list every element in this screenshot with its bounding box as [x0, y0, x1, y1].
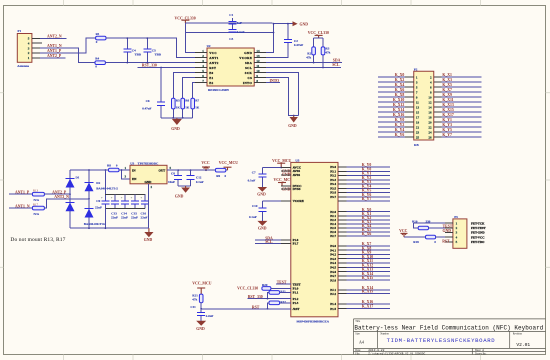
svg-text:10: 10 [428, 95, 432, 99]
svg-text:R8: R8 [107, 164, 111, 168]
wire ANT2 net: R4 to U2.ANT2 [105, 62, 195, 64]
wire U3.GND to ground rail [148, 184, 150, 228]
diode D2 (dual BAS40-04) [88, 170, 90, 228]
wire net K_X13 (P2 right) [441, 106, 481, 108]
wire net K_X11 (U5) [347, 262, 391, 264]
junction C12 [190, 169, 192, 171]
svg-text:FET-GND: FET-GND [471, 231, 485, 235]
svg-text:C8: C8 [171, 171, 175, 175]
wire net SCL (U2) [266, 67, 341, 69]
resistor R18 [426, 235, 436, 239]
wire net SDA (U2) [266, 62, 342, 64]
wire net K_X1 (P2 right) [441, 76, 481, 78]
svg-text:VCC_CL330: VCC_CL330 [175, 16, 196, 20]
wire net K_Y2 (U5) [347, 179, 391, 181]
wire net K_Y7 (U5) [347, 200, 391, 202]
svg-text:20: 20 [428, 120, 432, 124]
P3 pin numbers [456, 221, 458, 244]
wire net K_X11 (P2 right) [441, 101, 481, 103]
svg-text:SDA: SDA [245, 61, 253, 65]
svg-text:ANT2_N: ANT2_N [54, 195, 69, 199]
wire net K_X17 (P2 right) [441, 116, 481, 118]
svg-text:FET-TCK: FET-TCK [471, 221, 485, 225]
svg-text:13: 13 [416, 105, 420, 109]
resistor R2 [313, 38, 315, 62]
svg-text:18: 18 [428, 115, 432, 119]
svg-text:C1: C1 [229, 13, 233, 17]
resistor R21 [199, 294, 203, 303]
U2 right pin stubs [254, 53, 266, 83]
U2 left pin names [209, 51, 219, 85]
junction R12/RST [267, 308, 269, 310]
svg-text:11: 11 [416, 100, 419, 104]
svg-text:K_X16: K_X16 [362, 300, 373, 304]
svg-text:R20: R20 [262, 283, 268, 287]
wire net SDA (U5) [255, 239, 281, 241]
svg-text:FET-VCC: FET-VCC [471, 235, 484, 239]
wire net K_X15 (P2 right) [441, 111, 481, 113]
voltage regulator U3 TPS78330 [130, 165, 167, 184]
svg-text:P2.7: P2.7 [330, 234, 336, 238]
svg-text:22uF: 22uF [141, 216, 148, 220]
svg-text:K_X14: K_X14 [393, 108, 404, 112]
wire net K_X8 (U5) [347, 249, 391, 251]
svg-text:TBD: TBD [135, 52, 142, 56]
U2 right pin names [239, 51, 252, 85]
svg-text:VCC_MCU: VCC_MCU [192, 282, 211, 286]
svg-text:ANT1_P: ANT1_P [15, 191, 30, 195]
svg-text:PJ.0: PJ.0 [330, 278, 336, 282]
svg-text:N/A: N/A [34, 212, 40, 216]
node GND (AVSS pins) [282, 169, 291, 177]
svg-text:0.1uF: 0.1uF [248, 179, 256, 183]
svg-text:C7: C7 [252, 171, 256, 175]
wire net K_X15 (U5) [347, 293, 391, 295]
svg-text:GND: GND [175, 195, 184, 199]
svg-text:PJ.2: PJ.2 [330, 292, 336, 296]
svg-text:ANT1_N: ANT1_N [15, 204, 30, 208]
wire net K_X0 (U5) [347, 211, 391, 213]
svg-text:C6: C6 [146, 99, 150, 103]
svg-text:P1.1: P1.1 [293, 291, 299, 295]
P2 pin stubs [405, 77, 441, 137]
U5 left pin stubs [281, 168, 291, 309]
svg-text:K_X2: K_X2 [395, 78, 405, 82]
capacitor C8 [177, 170, 179, 186]
svg-text:K_Y6: K_Y6 [395, 133, 405, 137]
wire net RST_330 to U2.RST [137, 67, 195, 69]
wire R18 to P3.4 [436, 236, 445, 238]
svg-text:ANT1_N: ANT1_N [47, 44, 62, 48]
svg-text:R9: R9 [216, 174, 220, 178]
svg-text:12: 12 [428, 100, 432, 104]
svg-text:VCC_CL330: VCC_CL330 [237, 286, 258, 290]
svg-text:C11: C11 [190, 305, 196, 309]
svg-text:VCC_MCU: VCC_MCU [272, 159, 291, 163]
svg-text:K_X17: K_X17 [442, 113, 453, 117]
capacitor C12 [190, 170, 192, 186]
connector P2 (KB) [414, 71, 434, 140]
wire net K_X3 (P2 right) [441, 81, 481, 83]
junction VCC [205, 169, 207, 171]
svg-text:2.2nF: 2.2nF [206, 314, 214, 318]
svg-text:22uF: 22uF [95, 206, 102, 210]
svg-text:CS: CS [248, 76, 253, 80]
wire net ANT2_P (pin 1 stub) [40, 57, 66, 59]
wire U2.E1 to R6 [183, 77, 195, 98]
wire cap bank to ground rail [104, 209, 106, 229]
wire VCC rail: U3.OUT [167, 169, 215, 171]
svg-text:K_X9: K_X9 [442, 93, 452, 97]
svg-text:R5: R5 [176, 98, 180, 102]
svg-text:10uF: 10uF [168, 180, 175, 184]
svg-text:ANT2_N: ANT2_N [47, 34, 62, 38]
svg-text:R17: R17 [33, 202, 39, 206]
cap bank top tie rail [105, 193, 145, 195]
IC U5 MSP430FR5969 body [291, 162, 338, 316]
wire net K_X14 (U5) [347, 275, 391, 277]
svg-text:SCL: SCL [265, 240, 273, 244]
ground arrow (top right) [293, 21, 298, 26]
svg-text:R13: R13 [33, 188, 39, 192]
svg-text:P1.7: P1.7 [293, 242, 299, 246]
svg-text:17: 17 [416, 115, 420, 119]
junction D2 mid [88, 198, 90, 200]
polarity marks cap bank [101, 196, 143, 200]
resistor R9 [215, 168, 225, 172]
wire R11 to U5.P1.1 and down to RST_330 [268, 292, 291, 298]
wire U2.E2 to R7 [193, 82, 195, 98]
wire R2/R3 tops tie [314, 37, 323, 39]
wire U2.CS to gnd [266, 78, 299, 116]
svg-text:P1.3: P1.3 [293, 301, 299, 305]
ground arrow (C8/C12) [185, 186, 187, 188]
wire net K_Y0 (U5) [347, 166, 391, 168]
wire net K_X6 (P2 left) [378, 91, 405, 93]
svg-text:GND: GND [171, 127, 180, 131]
svg-text:K_X12: K_X12 [393, 103, 404, 107]
ground arrow (C10) [257, 221, 267, 226]
svg-text:ANT2_P: ANT2_P [52, 191, 67, 195]
svg-text:ANT2: ANT2 [209, 61, 219, 65]
resistor R17 [32, 206, 44, 210]
wire net K_Y1 (P2 right) [441, 121, 481, 123]
wire net K_X9 (P2 right) [441, 96, 481, 98]
capacitor C5 [146, 38, 148, 63]
svg-text:K_X4: K_X4 [395, 83, 405, 87]
wire net K_X4 (P2 left) [378, 86, 405, 88]
svg-text:INTO: INTO [270, 79, 280, 83]
svg-text:1K: 1K [185, 106, 190, 110]
resistor R3 [322, 38, 324, 67]
wire net K_Y3 (P2 right) [441, 126, 481, 128]
wire net K_X0 (P2 left) [378, 76, 405, 78]
capacitor C16 [144, 194, 146, 208]
svg-text:ANT2_P: ANT2_P [47, 54, 62, 58]
wire net K_Y5 (P2 right) [441, 131, 481, 133]
wire net K_X7 (U5) [347, 245, 391, 247]
resistor R5 [172, 98, 176, 109]
svg-text:R11: R11 [280, 290, 286, 294]
wire net ANT2_P to D1 [44, 193, 70, 195]
svg-text:VCC_MCU: VCC_MCU [219, 161, 238, 165]
svg-text:RST_330: RST_330 [248, 295, 263, 299]
svg-text:GND: GND [257, 192, 266, 196]
wire net K_X16 (U5) [347, 303, 391, 305]
svg-text:RST: RST [209, 66, 217, 70]
svg-text:+: + [141, 196, 143, 200]
wire net K_Y4 (P2 left) [378, 131, 405, 133]
svg-text:26: 26 [428, 135, 432, 139]
wire C8/C12 gnd tie [178, 185, 190, 187]
junction RST/C6 [160, 67, 162, 69]
svg-text:VCC_CL330: VCC_CL330 [308, 31, 329, 35]
svg-text:VCC: VCC [399, 229, 407, 233]
svg-text:25: 25 [416, 135, 420, 139]
wire net K_X15 (U5) [347, 279, 391, 281]
wire R8 to U3.IN and EN tie [119, 170, 130, 179]
wire VCC_CL330 rail to U2.VCC [185, 23, 272, 53]
U2 right pin numbers 14-8 [256, 49, 260, 83]
wire P3.1 TCK [414, 223, 446, 228]
svg-text:P3.7: P3.7 [330, 195, 336, 199]
junctions ground rail [88, 227, 106, 229]
junction dots C4/C5 [126, 37, 148, 63]
svg-text:TBD: TBD [155, 52, 162, 56]
resistor R20 [262, 287, 271, 291]
svg-text:23: 23 [416, 130, 420, 134]
svg-text:Number: Number [380, 333, 389, 336]
svg-text:+: + [121, 196, 123, 200]
svg-text:22uF: 22uF [111, 216, 118, 220]
svg-text:1K: 1K [195, 106, 200, 110]
svg-text:MSP430FR5969IRGZA: MSP430FR5969IRGZA [297, 319, 330, 323]
svg-text:V2.01: V2.01 [516, 342, 530, 348]
junction GND rail [273, 32, 275, 34]
svg-text:U2: U2 [207, 44, 211, 48]
svg-text:R6: R6 [185, 98, 189, 102]
values 22uF x4 [111, 216, 147, 220]
power symbol VCC_MCU [224, 166, 232, 168]
svg-text:K_Y0: K_Y0 [395, 118, 405, 122]
wire U2.E0 to R5 [173, 73, 195, 99]
power symbol VCC_MCU (DVCC) [278, 182, 286, 184]
svg-text:K_Y7: K_Y7 [362, 197, 372, 201]
wire net K_X17 (U5) [347, 308, 391, 310]
svg-text:+: + [101, 196, 103, 200]
power symbol VCC (P3) [401, 232, 408, 234]
svg-text:P2: P2 [414, 67, 418, 71]
svg-text:C9: C9 [96, 199, 100, 203]
ground arrow (C11) [196, 321, 206, 326]
capacitor C4 [126, 38, 128, 63]
wire R20 to U5.P1.0 [271, 287, 291, 289]
U2 left pin numbers 1-7 [202, 49, 204, 83]
wire net K_X4 (U5) [347, 227, 391, 229]
svg-text:C10: C10 [252, 204, 258, 208]
wire net K_X1 (U5) [347, 215, 391, 217]
svg-text:R10: R10 [412, 219, 418, 223]
svg-text:VCORE: VCORE [239, 56, 252, 60]
svg-text:TEST: TEST [443, 225, 453, 229]
svg-text:TEST: TEST [277, 281, 287, 285]
junction R11/RST_330 [267, 298, 269, 300]
wire net K_X9 (U5) [347, 253, 391, 255]
wire net ANT1_P : P1.2 to R1 [40, 38, 96, 53]
wire U2.GND to GND arrow [266, 24, 293, 53]
junction SDA/R2 [313, 62, 315, 64]
connector P3 (FET) [453, 219, 467, 248]
junction R21/C11 [200, 308, 202, 310]
svg-text:0.1uF: 0.1uF [196, 180, 204, 184]
svg-text:K_X13: K_X13 [442, 103, 453, 107]
svg-text:K_X6: K_X6 [362, 232, 372, 236]
svg-text:GND: GND [258, 226, 267, 230]
svg-text:Revision: Revision [513, 333, 523, 336]
svg-text:GND: GND [145, 180, 153, 184]
wire net K_Y3 (U5) [347, 183, 391, 185]
power symbol VCC_MCU (R21) [197, 287, 205, 289]
svg-text:SCL: SCL [332, 63, 340, 67]
wire VCORE [262, 200, 281, 202]
svg-text:BAS40-04LT1G: BAS40-04LT1G [96, 187, 118, 191]
ground arrow (regulator) [148, 228, 150, 232]
wire net K_X10 (P2 left) [378, 101, 405, 103]
wire net RST [201, 303, 291, 309]
junction rail/D2 [88, 169, 90, 171]
U3 pin numbers [125, 166, 172, 189]
U5 left pin names [292, 166, 304, 311]
IC U2 RF430CL330H body [207, 48, 254, 86]
wire net K_X3 (U5) [347, 223, 391, 225]
wire ground rail (rectifier) [70, 227, 149, 229]
svg-text:22uF: 22uF [131, 216, 138, 220]
svg-text:File:: File: [355, 352, 360, 355]
svg-text:ANT1: ANT1 [209, 56, 219, 60]
diode D1 (dual BAS40-04) [69, 170, 71, 228]
capacitor C2 [266, 24, 288, 58]
svg-text:22uF: 22uF [121, 216, 128, 220]
wire R10 to P3.2 (TEST) [429, 227, 446, 229]
wire net K_X10 (U5) [347, 258, 391, 260]
ground arrow (C7) [258, 187, 268, 192]
resistor R6 [181, 98, 185, 109]
wire net ANT1_N (left) [9, 207, 32, 209]
svg-text:K_X15: K_X15 [442, 108, 453, 112]
svg-text:0.47uF: 0.47uF [142, 107, 151, 111]
capacitor C14 [124, 194, 126, 208]
U3 pin names [132, 169, 166, 184]
svg-text:P3: P3 [454, 215, 458, 219]
svg-text:P1.4: P1.4 [330, 302, 336, 306]
svg-text:U5: U5 [295, 158, 299, 162]
svg-text:47k: 47k [192, 297, 197, 301]
svg-text:Title: Title [355, 320, 361, 323]
svg-text:E0: E0 [209, 71, 213, 75]
svg-text:14: 14 [428, 105, 432, 109]
svg-text:C12: C12 [196, 175, 202, 179]
svg-text:K_Y1: K_Y1 [442, 118, 452, 122]
wire GND rail (C1/C3) [186, 32, 274, 34]
svg-text:GND: GND [144, 238, 153, 242]
svg-text:R1: R1 [96, 32, 100, 36]
U5 right pin stubs [338, 167, 347, 309]
wire net K_X2 (P2 left) [378, 81, 405, 83]
resistor R8 [109, 168, 120, 172]
svg-text:K_X16: K_X16 [393, 113, 404, 117]
svg-text:GND: GND [244, 51, 252, 55]
wire net K_X6 (U5) [347, 235, 391, 237]
ground arrow (below R5-R7) [176, 118, 178, 119]
svg-text:GND: GND [288, 124, 297, 128]
wire net TEST [276, 283, 291, 285]
svg-text:RST: RST [442, 239, 450, 243]
wire net K_X12 (U5) [347, 266, 391, 268]
svg-text:GND: GND [196, 327, 205, 331]
junction C8 [177, 169, 179, 171]
svg-text:A4: A4 [359, 339, 364, 344]
power symbol VCC [202, 166, 210, 168]
svg-text:K_X7: K_X7 [442, 88, 452, 92]
U5 right pin names [330, 165, 336, 311]
svg-text:K_X11: K_X11 [442, 98, 453, 102]
svg-text:19: 19 [416, 120, 420, 124]
P1 pin stubs [32, 38, 42, 58]
capacitor C3 [228, 30, 236, 33]
svg-text:R7: R7 [195, 98, 199, 102]
resistor R13 [32, 192, 44, 196]
wire ANT1 net: R1 to U2.ANT1 [106, 38, 195, 58]
wire net SCL (U5) [255, 243, 281, 245]
wire net K_X14 (P2 left) [378, 111, 405, 113]
svg-text:FET-TEST: FET-TEST [471, 226, 487, 230]
svg-text:47k: 47k [306, 56, 311, 60]
svg-text:SCK: SCK [245, 71, 253, 75]
svg-text:K_X1: K_X1 [442, 73, 452, 77]
svg-text:VCC: VCC [209, 51, 217, 55]
svg-text:E1: E1 [209, 76, 213, 80]
P2 pin numbers [416, 75, 432, 139]
resistor R12 [269, 301, 280, 305]
wire net K_Y0 (P2 left) [378, 121, 405, 123]
wire U2.INTO stub [266, 81, 280, 83]
junction D1 mid [69, 193, 71, 195]
junction GND stub/vertical [273, 23, 275, 25]
svg-text:K_X15: K_X15 [362, 276, 373, 280]
resistor R7 [191, 98, 195, 109]
svg-text:C3: C3 [229, 37, 233, 41]
wire net K_X7 (P2 right) [441, 91, 481, 93]
svg-text:330: 330 [426, 219, 431, 223]
svg-text:0.1uF: 0.1uF [249, 215, 257, 219]
power symbol VCC_CL330 (top) [181, 19, 189, 21]
wire net K_Y4 (U5) [347, 187, 391, 189]
junction IN/EN [121, 169, 123, 171]
svg-text:K_Y3: K_Y3 [442, 123, 452, 127]
svg-text:E2: E2 [209, 81, 213, 85]
svg-text:+: + [131, 196, 133, 200]
resistor R11 [269, 291, 280, 295]
svg-text:0.47uF: 0.47uF [294, 43, 303, 47]
svg-text:DVSS: DVSS [293, 187, 301, 191]
svg-text:R4: R4 [95, 56, 99, 60]
svg-text:0.1uF: 0.1uF [237, 30, 245, 34]
designators C13 C14 C15 C16 [111, 211, 146, 215]
svg-text:47k: 47k [325, 51, 330, 55]
wire net K_Y2 (P2 left) [378, 126, 405, 128]
connector P1 (Antenna) [17, 34, 32, 63]
svg-text:Battery-less Near Field Commun: Battery-less Near Field Communication (N… [354, 325, 543, 332]
